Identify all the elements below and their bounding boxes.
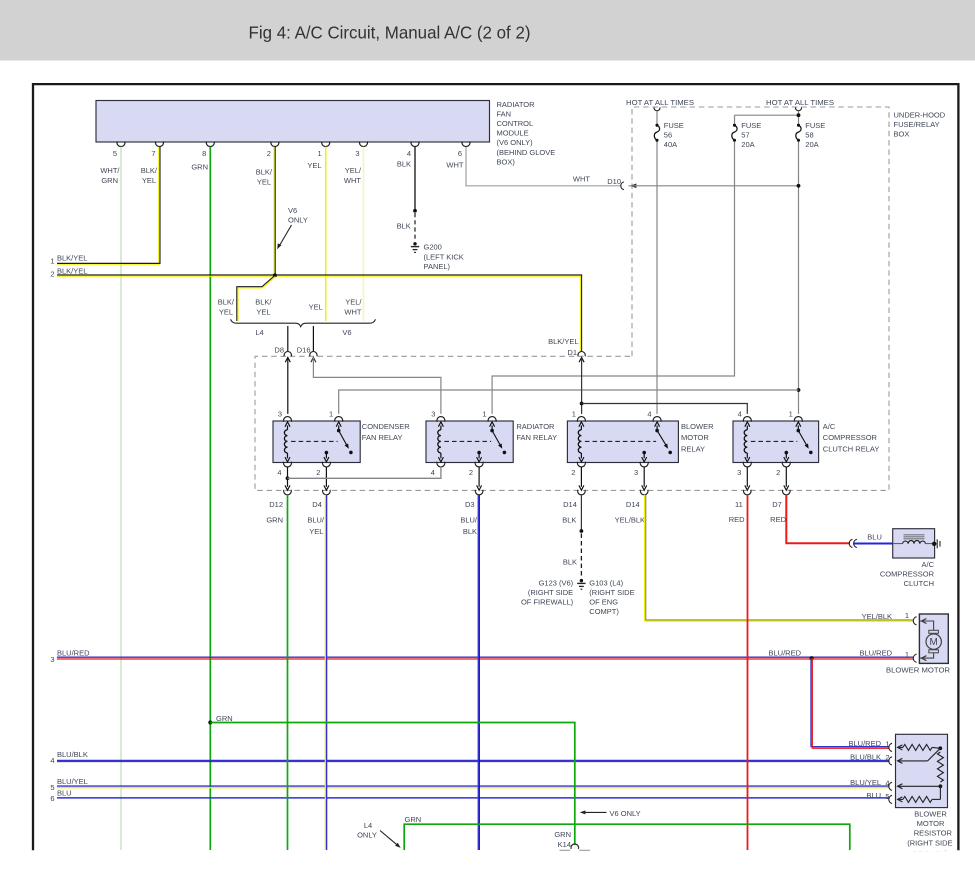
wire BLK/YEL jog to brace (L4) — [237, 275, 276, 321]
svg-text:BLOWER: BLOWER — [914, 810, 947, 819]
module label — [497, 100, 556, 167]
svg-text:V6 ONLY: V6 ONLY — [610, 809, 641, 818]
label YEL/WHT (brace) — [344, 298, 362, 317]
svg-text:(V6 ONLY): (V6 ONLY) — [497, 138, 534, 147]
wire link fuse57 to fuse58 feed — [735, 114, 799, 116]
connector resistor pin 1 — [889, 743, 892, 751]
svg-text:RELAY: RELAY — [681, 444, 705, 453]
wire D16 to radiator relay pin 3 — [311, 357, 441, 414]
connector D12 — [269, 490, 291, 509]
svg-text:1: 1 — [329, 410, 333, 419]
junction D1 branch — [580, 402, 584, 406]
svg-text:UNDER-HOOD: UNDER-HOOD — [894, 111, 946, 120]
wire BLU/RED branch to resistor pin 1 — [811, 658, 889, 748]
svg-text:3: 3 — [634, 468, 638, 477]
svg-text:BLK/YEL: BLK/YEL — [57, 266, 87, 275]
svg-text:RED: RED — [729, 515, 745, 524]
svg-text:FAN RELAY: FAN RELAY — [362, 433, 403, 442]
svg-text:BLU: BLU — [867, 533, 882, 542]
svg-text:V6: V6 — [342, 328, 351, 337]
svg-text:BLU: BLU — [57, 789, 72, 798]
connector blower motor pin 1 top — [913, 617, 916, 625]
connector D3 — [465, 490, 483, 509]
svg-text:ONLY: ONLY — [357, 831, 377, 840]
connector D7 — [772, 490, 790, 509]
svg-text:ONLY: ONLY — [288, 216, 308, 225]
svg-text:BLU/: BLU/ — [460, 516, 478, 525]
svg-text:2: 2 — [776, 468, 780, 477]
svg-text:BLK/: BLK/ — [218, 298, 235, 307]
module pin 3 — [355, 141, 367, 158]
svg-text:CONDENSER: CONDENSER — [362, 422, 411, 431]
svg-text:D12: D12 — [269, 500, 283, 509]
svg-text:4: 4 — [50, 756, 54, 765]
module pin 4 — [407, 141, 419, 158]
blower motor resistor label — [907, 810, 952, 858]
svg-text:YEL: YEL — [219, 308, 233, 317]
svg-text:(LEFT KICK: (LEFT KICK — [424, 252, 464, 261]
svg-text:1: 1 — [905, 650, 909, 659]
L4 ONLY note — [357, 821, 401, 848]
svg-text:56: 56 — [664, 131, 672, 140]
svg-text:V6: V6 — [288, 206, 297, 215]
connector D10 — [607, 177, 624, 190]
svg-text:A/C: A/C — [823, 422, 836, 431]
svg-text:1: 1 — [318, 149, 322, 158]
wire relay output stub x=581.4 — [579, 467, 584, 491]
wire BLK pin 4 — [414, 147, 416, 211]
off-page line 3 BLU/RED — [50, 649, 913, 664]
svg-text:(RIGHT SIDE: (RIGHT SIDE — [528, 588, 573, 597]
ground G200 — [411, 242, 419, 252]
wire BLK dashed to G200 — [414, 213, 416, 241]
connector D14 — [626, 490, 648, 509]
wire stub to D8 — [287, 326, 289, 352]
svg-text:RADIATOR: RADIATOR — [516, 422, 555, 431]
off-page line 6 BLU — [50, 789, 889, 804]
svg-text:BLU/RED: BLU/RED — [57, 649, 90, 658]
condenser fan relay — [273, 410, 360, 478]
svg-text:BLU/: BLU/ — [307, 516, 325, 525]
wire RED from D7 to A/C clutch — [786, 495, 850, 543]
svg-text:BOX): BOX) — [497, 157, 516, 166]
connector 11 — [735, 490, 751, 509]
svg-text:D16: D16 — [297, 346, 311, 355]
blower motor — [919, 614, 948, 663]
svg-text:D1: D1 — [567, 348, 577, 357]
svg-text:BLK: BLK — [463, 527, 477, 536]
connector resistor pin 2 — [889, 757, 892, 765]
a/c compressor clutch label — [880, 560, 935, 588]
junction fuse 58 feed — [797, 113, 801, 117]
label G123 (V6) (RIGHT SIDE OF FIREWALL) — [521, 578, 574, 606]
wire BLU/YEL from D4 down — [325, 495, 326, 850]
wire relay output stub x=479.1 — [477, 467, 482, 491]
svg-text:G123 (V6): G123 (V6) — [539, 578, 574, 587]
svg-text:BLK: BLK — [397, 222, 411, 231]
label WHT/GRN (pin 5) — [100, 166, 120, 185]
svg-text:BLK/YEL: BLK/YEL — [57, 254, 87, 263]
junction condenser pin 4 — [286, 476, 290, 480]
label BLU 5 (resistor) — [866, 791, 889, 801]
svg-text:FUSE: FUSE — [664, 121, 684, 130]
svg-text:7: 7 — [151, 149, 155, 158]
svg-text:2: 2 — [571, 468, 575, 477]
fuse 57 20A — [492, 115, 737, 414]
svg-text:58: 58 — [805, 131, 813, 140]
fuse 58 20A — [796, 107, 802, 414]
svg-text:3: 3 — [278, 410, 282, 419]
svg-text:BLU/BLK: BLU/BLK — [57, 750, 88, 759]
svg-text:BLU: BLU — [866, 791, 881, 800]
svg-text:1: 1 — [482, 410, 486, 419]
svg-text:BLK/: BLK/ — [141, 166, 158, 175]
wire GRN lower run — [404, 824, 850, 850]
module pin 1 — [318, 141, 330, 158]
svg-text:2: 2 — [469, 468, 473, 477]
svg-text:GRN: GRN — [405, 815, 422, 824]
connector D16 — [297, 346, 317, 357]
connector D14 — [563, 490, 585, 509]
label BLK/YEL (pin 2) — [256, 168, 273, 187]
svg-text:COMPRESSOR: COMPRESSOR — [880, 569, 935, 578]
junction BLK/YEL line 2 — [273, 273, 277, 277]
svg-text:D14: D14 — [626, 500, 640, 509]
a/c compressor clutch — [893, 529, 940, 558]
connector K14 — [554, 830, 578, 849]
wire WHT pin 6 to D10 — [466, 147, 621, 186]
svg-text:D7: D7 — [772, 500, 782, 509]
ground G123/G103 — [577, 579, 585, 589]
svg-text:4: 4 — [277, 468, 281, 477]
svg-text:1: 1 — [905, 611, 909, 620]
svg-text:FAN RELAY: FAN RELAY — [516, 433, 557, 442]
svg-text:4: 4 — [647, 410, 651, 419]
svg-text:8: 8 — [202, 149, 206, 158]
svg-text:FUSE: FUSE — [741, 121, 761, 130]
label G200 (LEFT KICK PANEL) — [424, 243, 464, 272]
wire WHT/GRN from pin 5 down — [120, 147, 122, 850]
label BLU/YEL 4 (resistor) — [850, 778, 889, 788]
label BLK/YEL (brace wire 1) — [218, 298, 235, 317]
connector A/C clutch harness — [849, 539, 857, 547]
wire BLU to A/C clutch — [854, 542, 893, 544]
off-page line 4 BLU/BLK — [50, 750, 889, 765]
label BLU/BLK 2 (resistor) — [850, 752, 889, 762]
svg-text:YEL/: YEL/ — [345, 166, 362, 175]
label BLK/YEL (brace wire 2) — [255, 298, 272, 317]
svg-text:MOTOR: MOTOR — [681, 433, 709, 442]
svg-text:6: 6 — [50, 794, 54, 803]
V6 ONLY note (upper) — [277, 206, 308, 249]
svg-text:BLK: BLK — [562, 516, 576, 525]
svg-text:2: 2 — [267, 149, 271, 158]
svg-text:HOT AT ALL TIMES: HOT AT ALL TIMES — [626, 98, 694, 107]
svg-text:(BEHIND GLOVE: (BEHIND GLOVE — [497, 148, 556, 157]
svg-text:K14: K14 — [558, 840, 571, 849]
svg-text:OF FIREWALL): OF FIREWALL) — [521, 598, 574, 607]
svg-text:CONTROL: CONTROL — [497, 119, 534, 128]
svg-text:GRN: GRN — [191, 163, 208, 172]
svg-text:YEL: YEL — [309, 303, 323, 312]
svg-text:COMPT): COMPT) — [589, 607, 619, 616]
svg-text:YEL: YEL — [257, 178, 271, 187]
wire D1 to blower relay pin 1 — [579, 357, 584, 414]
svg-text:HOT AT ALL TIMES: HOT AT ALL TIMES — [766, 98, 834, 107]
wire relay output stub x=786.3 — [784, 467, 789, 491]
svg-text:YEL: YEL — [309, 527, 323, 536]
svg-text:CLUTCH: CLUTCH — [904, 579, 934, 588]
svg-text:COMPRESSOR: COMPRESSOR — [823, 433, 878, 442]
wire RED from 11 down — [747, 495, 749, 850]
svg-text:BLU/RED: BLU/RED — [848, 739, 881, 748]
label G103 (L4) (RIGHT SIDE OF ENG COMPT) — [589, 578, 634, 616]
label BLK/YEL (pin 7) — [141, 166, 158, 185]
svg-text:(RIGHT SIDE: (RIGHT SIDE — [907, 838, 952, 847]
svg-text:BLK: BLK — [563, 558, 577, 567]
wire stub to D16 — [312, 326, 314, 352]
svg-text:YEL: YEL — [142, 176, 156, 185]
svg-text:11: 11 — [735, 500, 743, 509]
svg-text:3: 3 — [355, 149, 359, 158]
svg-text:M: M — [930, 637, 938, 648]
label BLU/RED 1 (resistor) — [848, 739, 889, 749]
svg-text:D8: D8 — [274, 346, 284, 355]
svg-text:A/C: A/C — [921, 560, 934, 569]
wire BLK from D14 — [580, 495, 582, 531]
dashed edge at K14 — [560, 849, 591, 851]
svg-text:BLU/YEL: BLU/YEL — [57, 777, 88, 786]
wire GRN from pin 8 down — [209, 147, 211, 850]
svg-text:OF ENG: OF ENG — [589, 598, 618, 607]
svg-text:BLK/: BLK/ — [256, 168, 273, 177]
wire condenser pin 1 to fuse 58 line — [339, 390, 799, 414]
wire relay output stub x=287.5 — [285, 467, 290, 491]
svg-text:FUSE: FUSE — [805, 121, 825, 130]
wire condenser pin 4 to radiator pin 4 — [288, 467, 441, 479]
svg-text:20A: 20A — [741, 140, 754, 149]
wire GRN from D12 down — [287, 495, 289, 850]
wire BLU/BLK from D3 down — [478, 495, 479, 850]
svg-text:4: 4 — [407, 149, 411, 158]
wire relay output stub x=326.4 — [324, 467, 329, 491]
svg-text:1: 1 — [789, 410, 793, 419]
wire GRN branch to K14 — [210, 723, 575, 845]
wire WHT D10 to fuse 58 line — [629, 184, 799, 189]
wire YEL pin 1 to brace — [325, 147, 327, 321]
junction BLK ground wire — [580, 529, 584, 533]
svg-text:FAN: FAN — [497, 109, 512, 118]
svg-text:D4: D4 — [312, 500, 322, 509]
wire BLK/YEL pin 7 to line 1 — [159, 147, 160, 265]
svg-text:RADIATOR: RADIATOR — [497, 100, 536, 109]
svg-text:3: 3 — [431, 410, 435, 419]
junction BLK pin 4 — [413, 209, 417, 213]
module pin 6 — [458, 141, 470, 158]
off-page line 2 BLK/YEL to D1 — [50, 266, 582, 352]
svg-text:PANEL): PANEL) — [424, 262, 451, 271]
svg-text:1: 1 — [572, 410, 576, 419]
radiator fan relay — [426, 410, 513, 478]
svg-text:D14: D14 — [563, 500, 577, 509]
wire BLK dashed to G123/G103 — [580, 534, 582, 578]
wire D1 branch to A/C relay pin 4 — [582, 404, 748, 414]
module pin 2 — [267, 141, 279, 158]
svg-text:4: 4 — [738, 410, 742, 419]
svg-text:5: 5 — [113, 149, 117, 158]
fuse 56 40A — [654, 107, 660, 414]
brace L4/V6 grouping — [231, 319, 376, 326]
svg-text:Fig 4: A/C Circuit, Manual A/C: Fig 4: A/C Circuit, Manual A/C (2 of 2) — [249, 23, 531, 43]
connector resistor pin 5 — [889, 795, 892, 803]
svg-text:YEL/: YEL/ — [345, 298, 362, 307]
off-page line 1 BLK/YEL — [50, 254, 160, 266]
off-page line 5 BLU/YEL — [50, 777, 889, 792]
svg-text:YEL: YEL — [256, 308, 270, 317]
blower motor relay — [567, 410, 678, 478]
wire relay output stub x=747.3 — [745, 467, 750, 491]
svg-text:3: 3 — [737, 468, 741, 477]
svg-text:(RIGHT SIDE: (RIGHT SIDE — [589, 588, 634, 597]
svg-text:D10: D10 — [607, 177, 621, 186]
svg-text:BLOWER MOTOR: BLOWER MOTOR — [886, 666, 951, 675]
header bar — [0, 0, 975, 61]
svg-text:BLU/RED: BLU/RED — [768, 649, 801, 658]
svg-text:YEL: YEL — [307, 161, 321, 170]
svg-text:GRN: GRN — [101, 176, 118, 185]
svg-text:40A: 40A — [664, 140, 677, 149]
connector resistor pin 4 — [889, 782, 892, 790]
module pin 5 — [113, 141, 125, 158]
svg-text:1: 1 — [50, 257, 54, 266]
svg-text:GRN: GRN — [554, 830, 571, 839]
svg-text:6: 6 — [458, 149, 462, 158]
wire relay output stub x=644.2 — [642, 467, 647, 491]
svg-text:WHT: WHT — [446, 161, 463, 170]
radiator fan control module — [96, 101, 490, 143]
connector blower motor pin 1 bottom — [913, 654, 916, 662]
svg-text:BLU/BLK: BLU/BLK — [850, 752, 881, 761]
connector D8 — [274, 346, 291, 357]
svg-text:MODULE: MODULE — [497, 129, 529, 138]
svg-text:3: 3 — [50, 655, 54, 664]
wire YEL/BLK from D14 to blower motor — [645, 495, 913, 621]
svg-text:BLK: BLK — [397, 160, 411, 169]
svg-text:CLUTCH RELAY: CLUTCH RELAY — [823, 444, 880, 453]
svg-text:G200: G200 — [424, 243, 442, 252]
svg-text:MOTOR: MOTOR — [917, 819, 945, 828]
svg-text:BLOWER: BLOWER — [681, 422, 714, 431]
module pin 8 — [202, 141, 214, 158]
svg-text:BLU/YEL: BLU/YEL — [850, 778, 881, 787]
svg-text:BLU/RED: BLU/RED — [859, 649, 892, 658]
svg-text:WHT/: WHT/ — [100, 166, 120, 175]
label YEL/WHT (pin 3) — [344, 166, 362, 185]
svg-text:FUSE/RELAY: FUSE/RELAY — [894, 120, 940, 129]
svg-text:D3: D3 — [465, 500, 475, 509]
svg-text:YEL/BLK: YEL/BLK — [862, 612, 892, 621]
svg-text:BLK/YEL: BLK/YEL — [548, 337, 578, 346]
svg-text:2: 2 — [50, 270, 54, 279]
a/c compressor clutch relay — [733, 410, 819, 478]
svg-text:L4: L4 — [255, 328, 263, 337]
svg-text:BOX: BOX — [894, 130, 910, 139]
module pin 7 — [151, 141, 163, 158]
svg-text:57: 57 — [741, 131, 749, 140]
junction fuse 58 / condenser pin 1 tap — [797, 388, 801, 392]
svg-text:RED: RED — [770, 515, 786, 524]
svg-text:20A: 20A — [805, 140, 818, 149]
junction fuse 58 / WHT tap — [797, 184, 801, 188]
svg-text:5: 5 — [50, 783, 54, 792]
wire BLK/YEL pin 2 down to junction — [274, 147, 275, 276]
svg-text:2: 2 — [316, 468, 320, 477]
label BLU/YEL (D4) — [307, 516, 325, 537]
wire D8 to condenser relay pin 3 — [285, 357, 290, 414]
svg-text:WHT: WHT — [344, 308, 361, 317]
svg-text:YEL/BLK: YEL/BLK — [615, 516, 645, 525]
blower motor resistor — [896, 734, 948, 807]
junction GRN branch — [208, 721, 212, 725]
svg-text:G103 (L4): G103 (L4) — [589, 578, 623, 587]
svg-text:GRN: GRN — [266, 516, 283, 525]
svg-text:4: 4 — [431, 468, 435, 477]
junction BLU/RED — [810, 656, 814, 660]
wire YEL/WHT pin 3 to brace — [363, 147, 365, 321]
V6 ONLY note (lower) — [580, 809, 641, 818]
svg-text:RESISTOR: RESISTOR — [914, 829, 953, 838]
under-hood fuse/relay box label — [894, 111, 946, 139]
under-hood fuse/relay box (dashed boundary) — [255, 107, 889, 490]
svg-text:L4: L4 — [364, 821, 372, 830]
connector D4 — [312, 490, 330, 509]
svg-text:WHT: WHT — [344, 176, 361, 185]
svg-text:BLK/: BLK/ — [255, 298, 272, 307]
svg-text:WHT: WHT — [573, 174, 590, 183]
label BLU/BLK (D3) — [460, 516, 478, 537]
connector D1 — [567, 348, 585, 357]
